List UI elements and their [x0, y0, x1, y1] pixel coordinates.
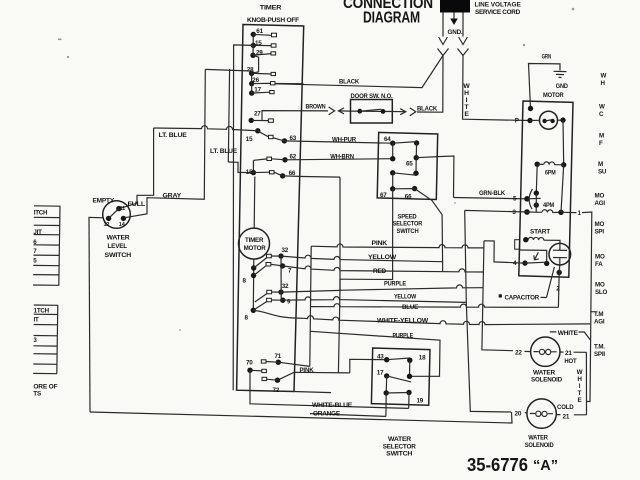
svg-text:H: H — [577, 376, 582, 383]
wire BLACK from connector to black bus (diagonal) — [275, 56, 443, 88]
svg-text:TIMER: TIMER — [260, 5, 282, 12]
svg-text:WATER: WATER — [388, 436, 412, 443]
motor start winding START — [523, 228, 560, 243]
svg-text:AGI: AGI — [594, 319, 605, 326]
wire from 67 down to purple junction — [340, 189, 393, 280]
svg-text:RED: RED — [373, 268, 387, 275]
wire from 65 out right down to GRN-BLK — [416, 156, 454, 198]
wire column x340 (timer 66 down to water selector 43 riser) — [338, 177, 340, 373]
svg-text:70: 70 — [246, 360, 253, 367]
wire WHITE from connector down to motor P — [463, 56, 530, 121]
arrow out of door switch right — [392, 109, 406, 115]
svg-text:BROWN: BROWN — [306, 104, 326, 111]
svg-text:SERVICE CORD: SERVICE CORD — [475, 9, 521, 16]
arrow into door switch left — [339, 108, 351, 114]
wire WHITE-BLUE (timer 70 to water selector 19) — [250, 370, 409, 409]
svg-text:29: 29 — [256, 50, 263, 57]
svg-text:27: 27 — [254, 111, 261, 118]
svg-text:MO: MO — [595, 193, 605, 200]
svg-text:61: 61 — [256, 28, 263, 35]
svg-text:I: I — [466, 97, 468, 104]
svg-text:WH-PUR: WH-PUR — [332, 137, 357, 144]
svg-text:FULL: FULL — [128, 201, 146, 208]
wire connector pin left (black lead arrow) — [439, 13, 448, 45]
wire black from door switch up to connector chevron — [417, 56, 443, 113]
wire connector pin right (white lead arrow) — [459, 13, 468, 45]
svg-text:PURPLE: PURPLE — [384, 280, 407, 287]
svg-text:TIMER: TIMER — [245, 237, 264, 244]
svg-text:PINK: PINK — [372, 240, 388, 247]
svg-text:35-6776: 35-6776 — [467, 454, 528, 475]
svg-text:66: 66 — [405, 194, 412, 201]
water selector contact 17 — [377, 369, 411, 393]
label WHITE (vertical) — [463, 83, 470, 118]
svg-text:DIAGRAM: DIAGRAM — [363, 10, 420, 27]
speed selector contact 64 — [384, 136, 419, 162]
connector J1 line voltage service cord block — [440, 0, 470, 13]
wire rail 32a-9 — [280, 256, 282, 300]
wire PURPLE 2 (riser to water selector 18 via) — [311, 331, 441, 376]
timer contact 15a — [251, 40, 276, 48]
mating chevron left — [438, 49, 449, 56]
svg-text:67: 67 — [380, 192, 387, 199]
timer contact 71 (pink) — [261, 353, 314, 374]
svg-text:T: T — [578, 390, 582, 397]
svg-text:MOTOR: MOTOR — [543, 92, 564, 99]
svg-text:17: 17 — [377, 369, 384, 376]
svg-text:TS: TS — [33, 391, 42, 398]
speed selector middle blade — [390, 170, 416, 189]
wire column E (motor 1 down right side to solenoids) — [556, 212, 592, 415]
svg-text:1TCH: 1TCH — [34, 307, 50, 314]
wire WH-BRN (timer 62 to speed selector 65) — [285, 153, 393, 160]
wire 43 feed from timer 72 — [350, 359, 387, 373]
timer node 8b (to white-yellow) — [245, 294, 304, 322]
label WATER SELECTOR SWITCH — [383, 436, 417, 458]
wire WH-PUR (timer 63 to speed selector 64) — [284, 137, 392, 144]
svg-text:SPII: SPII — [594, 351, 605, 358]
motor centrifugal switch 5 — [513, 164, 541, 209]
wire PINK (timer 71 riser to motor 4 junction) — [311, 240, 484, 248]
wire column A (pink/red to motor 4, down to hot solenoid) — [482, 241, 531, 352]
svg-text:71: 71 — [275, 353, 282, 360]
svg-text:START: START — [530, 228, 550, 235]
svg-text:WHITE: WHITE — [558, 330, 579, 337]
timer contact 9 (to yellow2) — [267, 298, 291, 306]
svg-text:H: H — [464, 90, 469, 97]
svg-text:72: 72 — [273, 387, 280, 394]
wire RED (timer 7 to motor-4 column) — [283, 266, 485, 275]
cold water solenoid L2 — [515, 399, 575, 449]
svg-text:WATER: WATER — [533, 370, 556, 377]
svg-text:15: 15 — [246, 136, 253, 143]
svg-text:T.M: T.M — [594, 311, 603, 318]
svg-text:SWITCH: SWITCH — [397, 228, 420, 235]
svg-text:M: M — [598, 161, 603, 168]
svg-text:E: E — [464, 111, 469, 118]
ground symbol GND — [554, 71, 569, 90]
svg-text:MO: MO — [595, 221, 605, 228]
legend table lower text fragments — [33, 307, 49, 344]
svg-text:MO: MO — [595, 254, 605, 261]
svg-text:32: 32 — [282, 247, 289, 254]
svg-text:MOTOR: MOTOR — [244, 245, 267, 252]
label SPEED SELECTOR SWITCH — [393, 213, 423, 235]
wire column B (motor 3 down to cold solenoid) — [465, 210, 527, 413]
svg-text:GRN: GRN — [542, 54, 552, 61]
timer contact 27 — [249, 111, 274, 124]
svg-text:YELLOW: YELLOW — [368, 254, 397, 261]
timer contact 26 — [249, 77, 304, 86]
svg-text:C: C — [599, 111, 604, 118]
motor main winding 6PM — [535, 120, 567, 176]
wire from 66 out bottom down to yellow — [415, 189, 443, 272]
svg-text:64: 64 — [384, 136, 391, 143]
timer contact 15c / 63 — [246, 128, 297, 143]
svg-text:F: F — [599, 140, 603, 147]
connector chevron right of door switch — [410, 108, 416, 116]
svg-text:WH-BRN: WH-BRN — [330, 153, 354, 160]
legend table upper text fragments — [33, 209, 48, 264]
wire ORANGE (to water selector 17 via) — [310, 410, 386, 417]
svg-text:WATER: WATER — [107, 235, 131, 242]
svg-text:32: 32 — [282, 283, 289, 290]
svg-text:BLUE: BLUE — [402, 304, 419, 311]
timer contact 61 — [251, 28, 277, 37]
wire WHITE jumper label with dashes — [550, 330, 591, 340]
svg-text:PURPLE: PURPLE — [393, 333, 414, 340]
wire vertical branch to LT BLUE 2 — [228, 69, 229, 162]
legend table fragment lower — [33, 305, 58, 374]
timer contact 72 (to water selector 43) — [267, 372, 350, 394]
svg-text:SOLENOID: SOLENOID — [531, 377, 563, 384]
svg-text:6PM: 6PM — [545, 169, 556, 176]
water selector contact 19 — [384, 390, 424, 417]
svg-text:M: M — [599, 133, 604, 140]
timer contact 28 — [247, 67, 276, 77]
svg-text:19: 19 — [417, 397, 424, 404]
svg-text:YELLOW: YELLOW — [394, 294, 417, 301]
ground lead GND of service cord — [448, 13, 463, 37]
svg-text:21: 21 — [565, 350, 572, 357]
wire LT. BLUE 2 (to timer 15b) — [210, 148, 253, 172]
wire YELLOW (timer 32a to 66 column) — [281, 254, 442, 262]
wire BLUE (riser to capacitor 2) — [311, 304, 559, 311]
svg-text:LINE VOLTAGE: LINE VOLTAGE — [475, 2, 522, 9]
timer contact 7 (to red) — [266, 263, 292, 275]
water selector contact 43 / 18 — [377, 353, 426, 379]
timer contact 70 — [246, 360, 267, 381]
speed selector contact 67 / 66 — [380, 186, 417, 201]
scan speck marks — [58, 8, 574, 331]
motor winding 4PM and terminals 3 / 1 — [512, 165, 581, 217]
svg-text:H: H — [601, 80, 606, 87]
svg-text:ORANGE: ORANGE — [313, 410, 341, 417]
svg-text:E: E — [578, 397, 582, 404]
motor capacitor C1 — [549, 243, 571, 307]
svg-text:MO: MO — [595, 282, 605, 289]
svg-text:11: 11 — [120, 206, 126, 212]
wire PURPLE (32b junction to column A) — [340, 279, 483, 290]
svg-text:ITCH: ITCH — [34, 209, 48, 216]
svg-text:FA: FA — [595, 261, 603, 268]
wire vertical from 15a out left down — [233, 45, 253, 390]
svg-text:65: 65 — [406, 161, 413, 168]
wire rail 28-17 — [251, 73, 253, 93]
door switch S1 DOOR SW. N.O. — [351, 93, 393, 123]
speed selector switch S3 box — [377, 132, 438, 199]
wire YELLOW2 (timer 9 to column B) — [283, 294, 467, 303]
timer TIMER KNOB-PUSH OFF — [237, 5, 304, 392]
wire riser pink vertical (71 up) — [310, 246, 311, 366]
svg-text:SELECTOR: SELECTOR — [393, 221, 423, 228]
timer box bottom extension wire — [294, 392, 331, 393]
svg-text:SLO: SLO — [595, 289, 608, 296]
svg-text:21: 21 — [563, 413, 570, 420]
svg-text:SU: SU — [598, 169, 607, 176]
svg-text:SPEED: SPEED — [398, 213, 418, 220]
svg-text:W: W — [601, 73, 607, 80]
timer contact 17 — [249, 86, 274, 95]
svg-text:“A”: “A” — [533, 458, 558, 474]
wire bottom rail to cold solenoid — [90, 412, 512, 423]
wire GRN-BLK to motor 5 — [454, 190, 528, 199]
svg-text:GND.: GND. — [448, 29, 463, 36]
svg-text:SWITCH: SWITCH — [386, 451, 413, 458]
wire GRN to ground — [529, 54, 561, 109]
svg-text:IT: IT — [34, 316, 40, 323]
motor terminal P with protector circle — [515, 106, 566, 129]
wire left bus down — [89, 217, 90, 412]
stub to T.M AGI — [590, 311, 596, 313]
wire WHITE-YELLOW (timer 8b to T.M. column) — [304, 316, 591, 325]
svg-text:KNOB-PUSH OFF: KNOB-PUSH OFF — [247, 17, 299, 24]
timer motor M2 — [239, 177, 270, 311]
svg-text:GRAY: GRAY — [163, 192, 182, 199]
svg-text:SOLENOID: SOLENOID — [525, 442, 554, 449]
svg-text:4PM: 4PM — [543, 202, 554, 209]
svg-text:WHITE-BLUE: WHITE-BLUE — [312, 402, 353, 409]
text fragment ORE OF / TS — [33, 383, 57, 397]
svg-text:GND: GND — [556, 83, 569, 90]
svg-text:WHITE-YELLOW: WHITE-YELLOW — [377, 317, 429, 324]
title CONNECTION DIAGRAM (top clipped) — [343, 0, 433, 27]
label CAPACITOR with pointer — [499, 267, 555, 302]
svg-text:T.M.: T.M. — [594, 344, 605, 351]
right margin clipped labels — [594, 73, 608, 359]
water selector switch S4 box — [371, 348, 430, 405]
wire BROWN from timer 27 to door switch — [262, 111, 328, 121]
wire from left bus into water level 12 — [89, 216, 105, 218]
timer contact 32a (to yellow) — [267, 247, 289, 259]
label WHITE (vertical, between solenoids) — [577, 369, 583, 404]
timer contact 62 — [253, 154, 296, 163]
mating chevron right — [458, 49, 469, 56]
timer contact 29 — [250, 50, 275, 58]
connector chevron left of door switch — [329, 107, 335, 115]
svg-text:ORE OF: ORE OF — [33, 383, 57, 390]
svg-text:P: P — [515, 117, 519, 124]
motor M1 box — [519, 101, 573, 277]
wire LT. BLUE (water level 11 to timer 15c) — [120, 126, 258, 209]
svg-text:W: W — [599, 104, 605, 111]
legend table fragment upper — [33, 206, 60, 286]
motor start switch 4 — [513, 240, 549, 268]
svg-text:COLD: COLD — [557, 404, 574, 411]
svg-text:AGI: AGI — [595, 200, 606, 207]
svg-text:LT. BLUE: LT. BLUE — [159, 132, 188, 139]
svg-text:BLACK: BLACK — [417, 105, 437, 112]
water level switch S2 — [93, 198, 146, 259]
svg-text:18: 18 — [419, 355, 426, 362]
svg-text:HOT: HOT — [564, 358, 576, 365]
svg-text:22: 22 — [515, 350, 522, 357]
svg-text:43: 43 — [377, 353, 384, 360]
wire GRAY (water level 14 up to timer 28) — [126, 69, 252, 217]
svg-text:JIT: JIT — [33, 229, 42, 236]
svg-text:20: 20 — [515, 410, 522, 417]
svg-text:12: 12 — [104, 222, 110, 228]
svg-text:SWITCH: SWITCH — [105, 252, 132, 259]
svg-text:SPI: SPI — [595, 229, 605, 236]
svg-text:W: W — [463, 83, 470, 90]
svg-text:CAPACITOR: CAPACITOR — [505, 295, 540, 302]
wire rail 61-29 and jog to 28 — [252, 34, 259, 73]
svg-text:W: W — [577, 369, 583, 376]
svg-text:WATER: WATER — [528, 434, 548, 441]
hot water solenoid L1 — [515, 337, 586, 384]
timer contact 15b / 66 — [246, 160, 340, 178]
svg-text:LEVEL: LEVEL — [108, 243, 128, 250]
svg-text:BLACK: BLACK — [339, 79, 359, 86]
timer node 8a — [243, 258, 267, 285]
speed selector contact 65 — [406, 143, 419, 176]
timer contact 32b (to purple junction) — [267, 283, 340, 295]
svg-text:GRN-BLK: GRN-BLK — [479, 190, 506, 197]
svg-text:SELECTOR: SELECTOR — [383, 443, 417, 450]
